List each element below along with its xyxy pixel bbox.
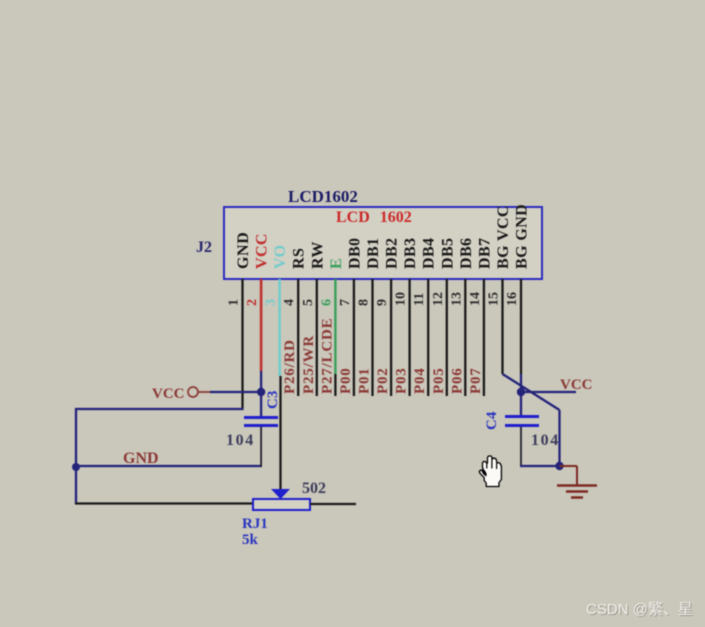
pin 6 number — [319, 299, 334, 306]
capacitor C4 plates — [505, 417, 539, 426]
pin 5 name RW — [309, 241, 326, 269]
pin 4 number — [282, 299, 297, 306]
VCC terminal circle — [188, 387, 198, 397]
svg-text:CSDN @繁、星: CSDN @繁、星 — [586, 601, 693, 618]
svg-text:P01: P01 — [357, 367, 373, 394]
svg-text:GND: GND — [235, 232, 252, 269]
net label P25/WR — [301, 335, 317, 394]
value 502 — [302, 480, 326, 497]
wire to ground symbol — [560, 465, 578, 467]
wire pin2 VCC red segment — [260, 279, 263, 371]
wire pin15 BG VCC vertical — [501, 279, 503, 374]
pin 13 number — [449, 292, 464, 306]
pin 5 number — [301, 299, 316, 306]
svg-text:C3: C3 — [265, 391, 281, 409]
wire pin16 navy segment — [520, 374, 522, 393]
wire pin2 VCC navy segment — [260, 371, 262, 393]
wire GND rail — [76, 465, 262, 467]
wire C4 bottom rail — [520, 465, 560, 467]
svg-text:P06: P06 — [449, 367, 465, 394]
pin 10 name DB3 — [402, 238, 419, 269]
pin 1 number — [227, 299, 242, 306]
net label P00 — [338, 367, 354, 394]
wire pin3 VO black segment to wiper — [279, 376, 281, 490]
svg-text:LCD1602: LCD1602 — [288, 187, 358, 206]
label VCC right — [560, 377, 593, 393]
potentiometer RJ1 body — [253, 499, 310, 510]
pin 11 name DB4 — [421, 238, 438, 269]
wire pin8 stub — [371, 279, 373, 396]
label GND — [123, 450, 159, 467]
pin 16 number — [505, 292, 520, 306]
svg-text:104: 104 — [531, 432, 560, 449]
svg-text:P00: P00 — [338, 367, 354, 394]
designator C3 — [265, 391, 281, 409]
wire potentiometer right — [310, 503, 356, 505]
wire VCC terminal stub — [198, 391, 212, 393]
svg-text:DB7: DB7 — [476, 238, 493, 269]
svg-text:VCC: VCC — [152, 386, 185, 402]
svg-text:4: 4 — [282, 299, 297, 306]
net label P26/RD — [282, 339, 298, 394]
svg-text:6: 6 — [319, 299, 334, 306]
net label P07 — [468, 367, 484, 394]
pin 2 name VCC — [254, 233, 271, 269]
designator RJ1 — [242, 516, 268, 532]
svg-text:J2: J2 — [196, 239, 212, 256]
wire pin7 stub — [353, 279, 355, 396]
pin 12 name DB5 — [439, 238, 456, 269]
pin 1 name GND — [235, 232, 252, 269]
svg-text:1: 1 — [227, 299, 242, 306]
svg-text:RW: RW — [309, 241, 326, 269]
pin 7 number — [338, 299, 353, 306]
svg-text:11: 11 — [412, 293, 427, 306]
wire pin12 stub — [446, 279, 448, 396]
designator C4 — [484, 411, 500, 430]
wire pin4 stub — [297, 279, 299, 396]
svg-text:P07: P07 — [468, 367, 484, 394]
svg-text:E: E — [328, 258, 345, 269]
wire VCC to junction — [210, 391, 262, 393]
net label P06 — [449, 367, 465, 394]
cursor hand — [479, 456, 501, 487]
wire pin14 stub — [483, 279, 485, 396]
svg-text:P05: P05 — [431, 367, 447, 394]
wire pin3 VO cyan segment — [278, 279, 281, 376]
svg-text:8: 8 — [357, 299, 372, 306]
svg-text:9: 9 — [375, 299, 390, 306]
capacitor C3 top stub — [260, 392, 262, 416]
svg-text:DB0: DB0 — [346, 238, 363, 269]
svg-text:DB2: DB2 — [384, 238, 401, 269]
pin 3 number — [264, 299, 279, 306]
capacitor C4 bottom stub — [520, 427, 522, 467]
wire pin5 stub — [316, 279, 318, 396]
svg-text:3: 3 — [264, 299, 279, 306]
capacitor C3 bottom stub — [260, 427, 262, 467]
svg-text:5: 5 — [301, 299, 316, 306]
junction VCC / C3 — [257, 388, 265, 396]
designator J2 — [196, 239, 212, 256]
capacitor C3 plates — [244, 418, 278, 426]
value 104 (C4) — [531, 432, 560, 449]
net label P02 — [375, 367, 391, 394]
svg-text:BG GND: BG GND — [514, 204, 531, 269]
pin 6 name E — [328, 258, 345, 269]
svg-text:DB5: DB5 — [439, 238, 456, 269]
svg-text:502: 502 — [302, 480, 326, 497]
label LCD 1602 (red, inside box) — [336, 209, 412, 226]
value 5k — [242, 532, 259, 548]
wire pin1 horizontal to left — [75, 408, 244, 410]
net label P03 — [394, 367, 410, 394]
pin 4 name RS — [291, 248, 308, 269]
pin 14 number — [468, 292, 483, 306]
wire pin15 diagonal — [503, 374, 560, 410]
junction left GND — [72, 463, 80, 471]
svg-text:DB3: DB3 — [402, 238, 419, 269]
pin 8 name DB1 — [365, 238, 382, 269]
value 104 (C3) — [226, 432, 255, 449]
svg-text:DB1: DB1 — [365, 238, 382, 269]
svg-text:RJ1: RJ1 — [242, 516, 268, 532]
svg-text:VCC: VCC — [254, 233, 271, 269]
pin 3 name VO — [272, 245, 289, 269]
ground symbol — [557, 466, 597, 498]
watermark CSDN — [586, 601, 694, 619]
net label P05 — [431, 367, 447, 394]
svg-text:P25/WR: P25/WR — [301, 335, 317, 394]
svg-text:10: 10 — [394, 292, 409, 306]
wire pin13 stub — [464, 279, 466, 396]
net label P04 — [412, 367, 428, 394]
wire pin11 stub — [427, 279, 429, 396]
pin 11 number — [412, 293, 427, 306]
svg-text:P27/LCDE: P27/LCDE — [319, 318, 335, 394]
wire left vertical bus — [75, 408, 77, 504]
svg-text:7: 7 — [338, 299, 353, 306]
net label P01 — [357, 367, 373, 394]
svg-text:5k: 5k — [242, 532, 259, 548]
svg-text:12: 12 — [431, 292, 446, 306]
svg-text:P02: P02 — [375, 367, 391, 394]
pin 8 number — [357, 299, 372, 306]
svg-text:C4: C4 — [484, 411, 500, 430]
svg-text:LCD 1602: LCD 1602 — [336, 209, 412, 226]
potentiometer RJ1 wiper arrow — [271, 489, 290, 499]
wire bottom rail to potentiometer — [75, 502, 253, 504]
svg-text:15: 15 — [487, 292, 502, 306]
svg-text:BG VCC: BG VCC — [495, 205, 512, 269]
svg-text:P03: P03 — [394, 367, 410, 394]
wire pin1 GND vertical — [241, 279, 243, 410]
svg-text:P26/RD: P26/RD — [282, 339, 298, 394]
pin 15 name BG VCC — [495, 205, 512, 269]
junction ground — [555, 462, 563, 470]
svg-text:14: 14 — [468, 292, 483, 306]
pin 14 name DB7 — [476, 238, 493, 269]
svg-text:RS: RS — [291, 248, 308, 269]
pin 9 number — [375, 299, 390, 306]
pin 16 name BG GND — [514, 204, 531, 269]
capacitor C4 top stub — [520, 392, 522, 416]
wire pin15 vertical to ground rail — [558, 410, 560, 467]
svg-text:DB4: DB4 — [421, 238, 438, 269]
connector J2 box — [224, 207, 542, 279]
pin 10 number — [394, 292, 409, 306]
net label P27/LCDE — [319, 318, 335, 394]
label LCD1602 (sheet symbol name) — [288, 187, 358, 206]
wire VCC rail right — [521, 391, 576, 393]
svg-text:VCC: VCC — [560, 377, 593, 393]
svg-text:2: 2 — [245, 299, 260, 306]
svg-text:P04: P04 — [412, 367, 428, 394]
svg-text:GND: GND — [123, 450, 159, 467]
svg-text:VO: VO — [272, 245, 289, 269]
wire pin10 stub — [408, 279, 410, 396]
pin 15 number — [487, 292, 502, 306]
junction VCC / C4 — [517, 388, 525, 396]
wire pin9 stub — [390, 279, 392, 396]
pin 2 number — [245, 299, 260, 306]
wire pin16 BG GND vertical — [520, 279, 522, 374]
pin 7 name DB0 — [346, 238, 363, 269]
pin 13 name DB6 — [458, 238, 475, 269]
pin 12 number — [431, 292, 446, 306]
svg-text:DB6: DB6 — [458, 238, 475, 269]
svg-text:104: 104 — [226, 432, 255, 449]
svg-text:16: 16 — [505, 292, 520, 306]
label VCC left — [152, 386, 185, 402]
svg-text:13: 13 — [449, 292, 464, 306]
pin 9 name DB2 — [384, 238, 401, 269]
wire pin6 E (green net) — [334, 279, 336, 396]
